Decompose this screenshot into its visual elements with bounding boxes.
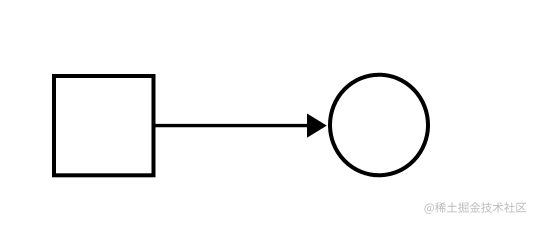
arrowhead: [307, 114, 327, 138]
square node: [54, 76, 154, 175]
wire: [153, 124, 309, 127]
circle node: [330, 75, 428, 176]
watermark @juejin: [425, 202, 527, 214]
